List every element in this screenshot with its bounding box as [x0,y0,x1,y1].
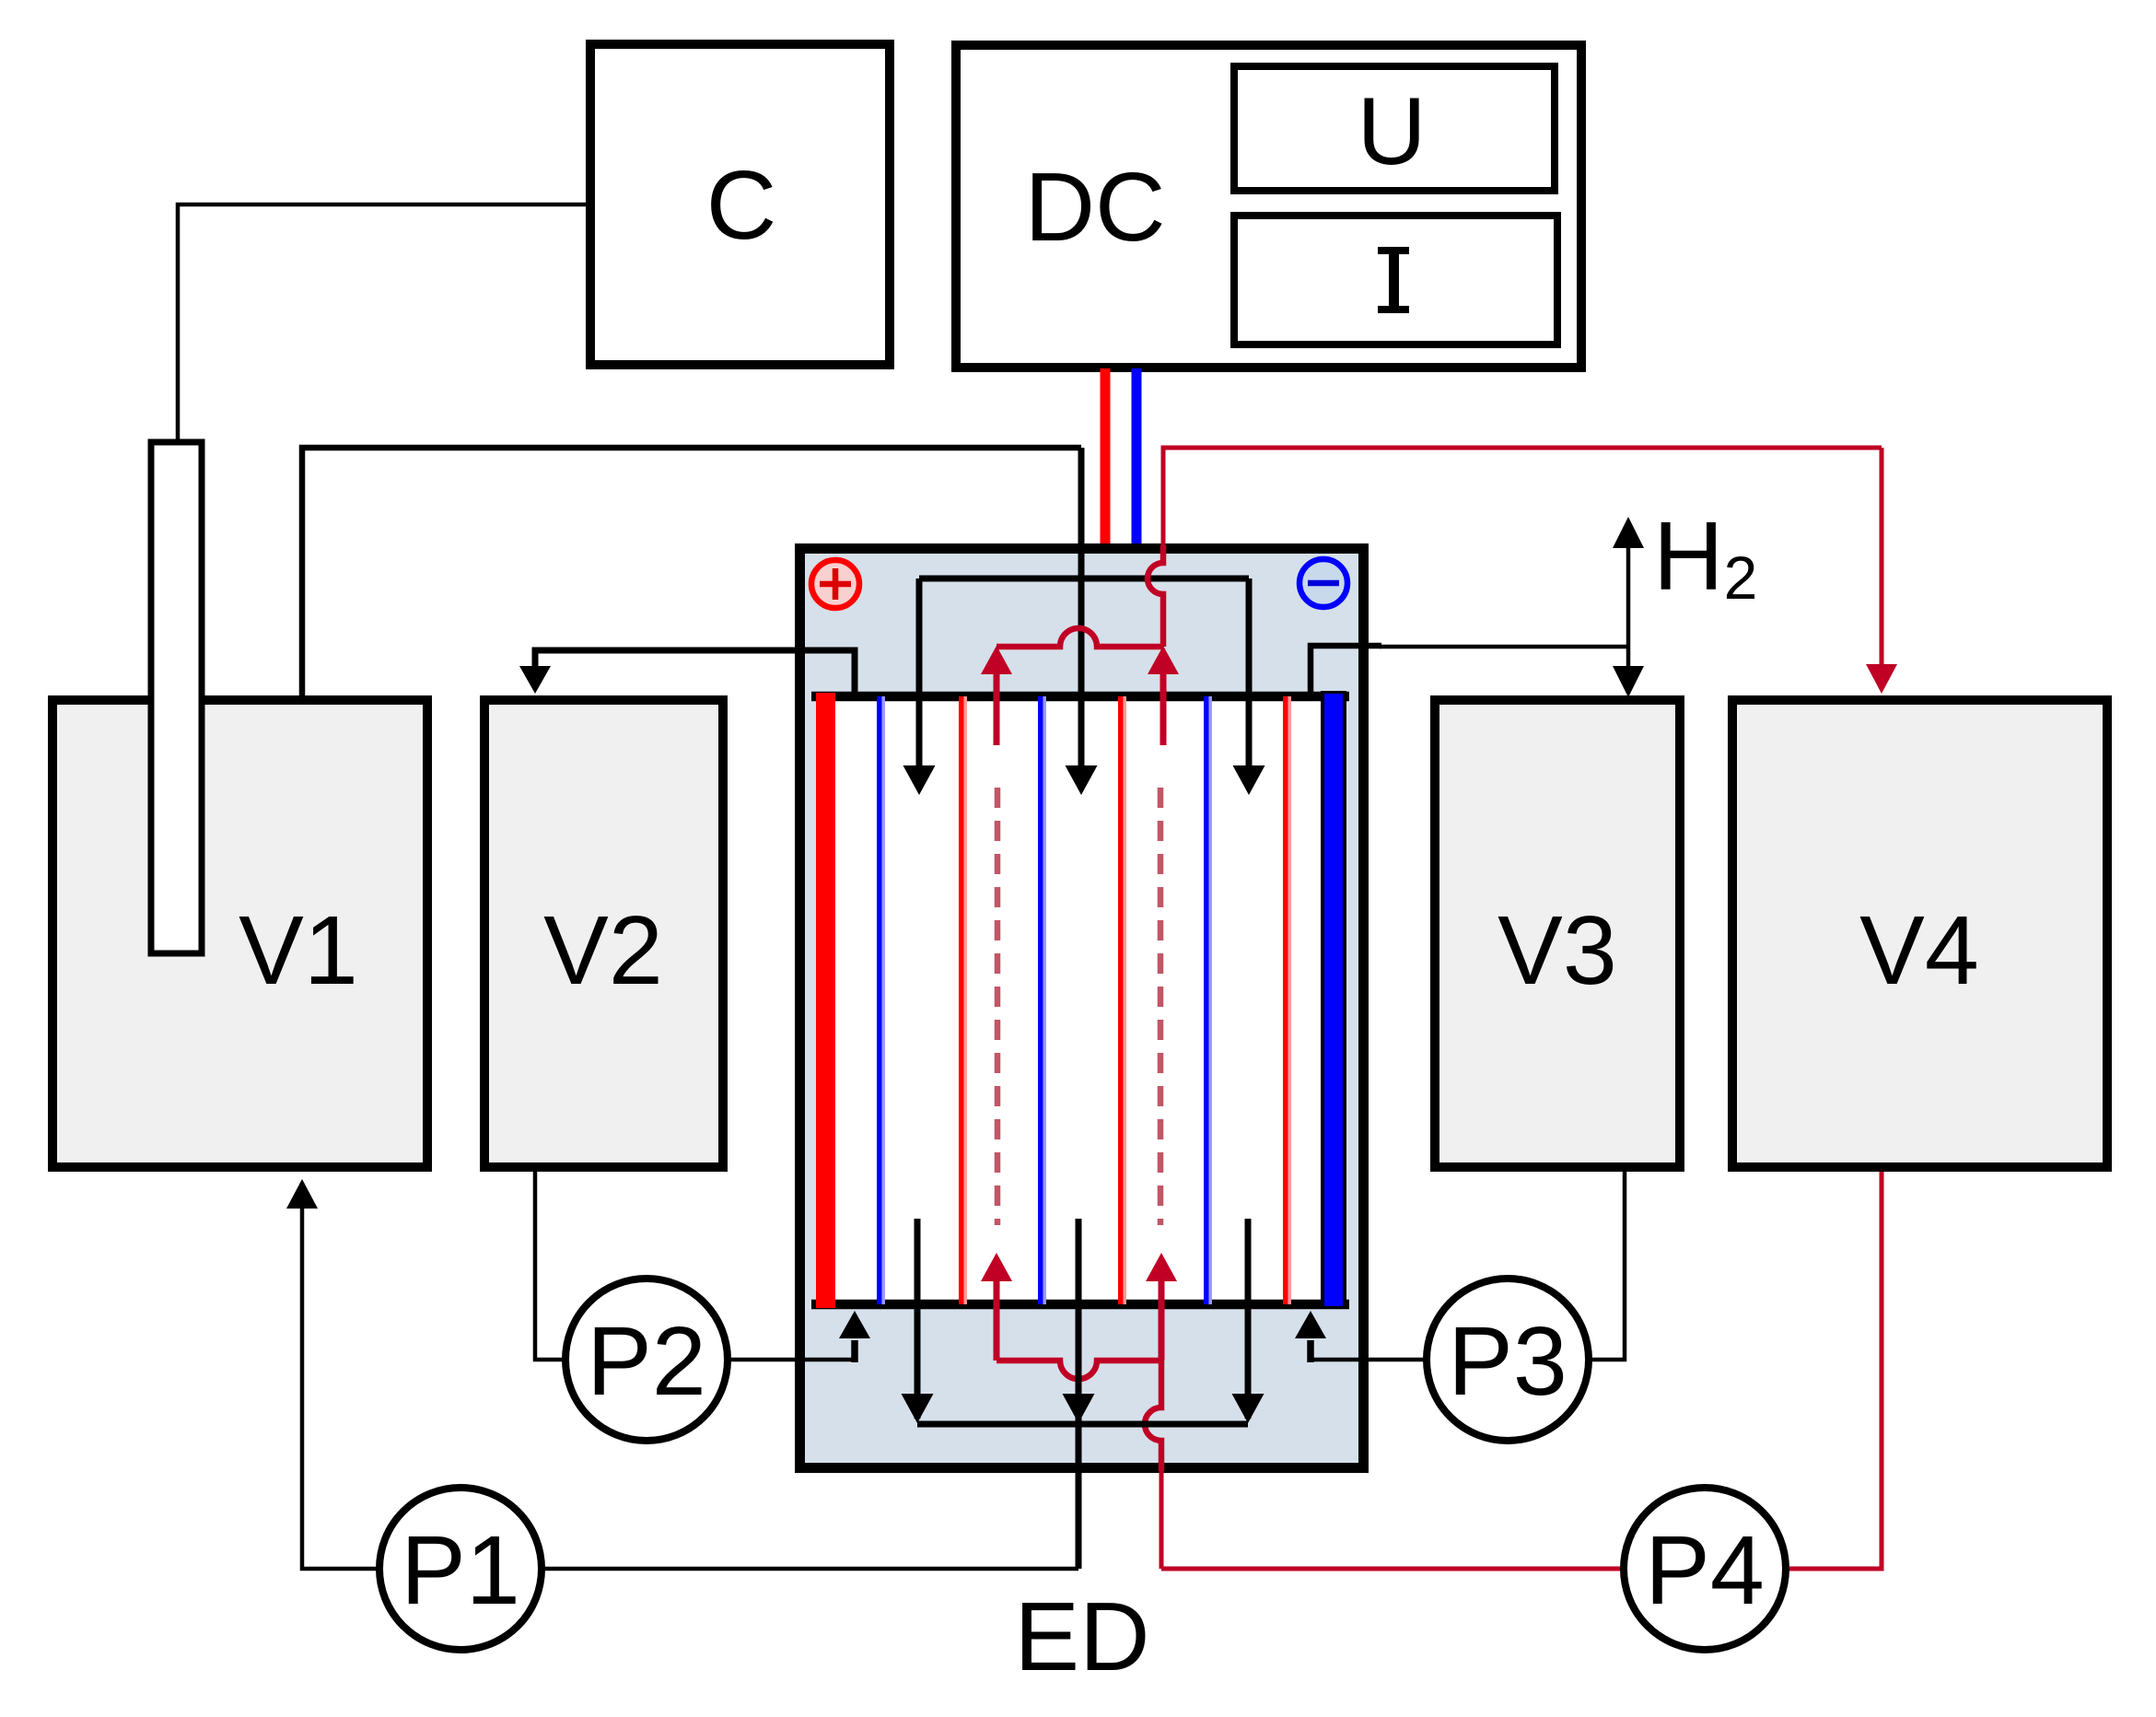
diluate bottom collector channel 2 (center) [1076,1219,1082,1569]
wire P4 to stack [1161,1567,1624,1571]
svg-text:V2: V2 [543,896,663,1005]
anolyte outlet tap to V2 [535,650,855,698]
wire V1 outlet to ED center inlet [302,448,1081,695]
pump P4 [1624,1488,1786,1650]
box C (conductivity meter) [590,44,890,365]
ED stack body [800,549,1364,1468]
anolyte inlet from P2 [731,1358,855,1362]
arrow into V4 [1880,448,1884,665]
svg-text:H2: H2 [1653,502,1757,612]
pump P1 [379,1488,542,1650]
label I (serifed glyph drawn as path) [1378,247,1409,313]
concentrate outlet riser with hop over manifold [1148,545,1163,647]
H2 vent double arrow [1626,545,1631,667]
wire P1 loop: stack bottom to P1 to V1 [532,1567,1078,1571]
catholyte inlet from P3 [1311,1358,1423,1362]
tank V4 [1732,700,2107,1167]
wire V3 to P3 [1589,1172,1625,1360]
svg-text:V3: V3 [1498,896,1617,1005]
arrow into V2 [519,666,551,694]
concentrate bottom up arrow right [1159,1280,1165,1361]
membrane CEM 2 (red) [1118,696,1124,1304]
anode electrode bar (red) [816,693,835,1308]
anode symbol plus [811,560,859,608]
pump P2 [565,1279,728,1441]
pump P3 [1427,1279,1589,1441]
concentrate bottom distribution line with hop down [996,1361,1161,1379]
concentrate return riser from P4 with hop over collector [1145,1361,1161,1471]
concentrate top collect line with hop over center feed [996,628,1163,647]
box DC (power supply) [956,45,1581,368]
diluate top manifold line [919,576,1249,582]
conductivity probe in V1 [151,442,202,953]
svg-text:V4: V4 [1859,896,1979,1005]
catholyte outlet tap to V3 / H2 [1311,646,1381,698]
svg-text:U: U [1357,78,1426,185]
membrane AEM 1 (blue) [877,696,882,1304]
svg-text:P1: P1 [401,1516,520,1625]
membrane AEM 3 (blue) [1204,696,1209,1304]
svg-text:ED: ED [1014,1583,1149,1691]
svg-text:DC: DC [1024,153,1165,262]
diluate feed channel 3 [1246,578,1253,769]
concentrate channel dashed line 2 [1158,788,1164,1225]
box I (ammeter) [1234,216,1557,345]
diluate bottom collector channel 3 [1245,1219,1252,1419]
membrane AEM 2 (blue) [1038,696,1043,1304]
svg-text:C: C [706,151,777,260]
wire DC negative (blue) [1132,368,1142,553]
wire V2 to P2 [535,1172,565,1360]
cathode electrode bar (blue, black outlined) [1321,691,1346,1309]
tank V2 [484,700,723,1167]
wire DC positive (red) [1101,368,1111,553]
concentrate bottom up arrow left [994,1280,1000,1361]
wire conductivity probe to C [178,204,586,439]
svg-text:P2: P2 [587,1307,706,1416]
diluate bottom collector channel 1 [915,1219,921,1419]
svg-text:P3: P3 [1448,1307,1567,1416]
cathode symbol minus [1299,559,1347,607]
concentrate up arrow left [994,674,1000,745]
concentrate channel dashed line 1 [995,788,1001,1225]
cell white region with top and bottom frame lines [816,695,1346,1304]
diluate feed channel 2 (center, from V1) [1078,448,1085,769]
concentrate up arrow right [1160,674,1167,745]
svg-text:P4: P4 [1645,1516,1765,1625]
svg-text:V1: V1 [239,896,358,1005]
diluate bottom collector manifold [917,1421,1248,1428]
tank V3 [1435,700,1680,1167]
box U (voltmeter) [1234,66,1555,191]
diluate feed channel 1 [916,578,923,769]
tank V1 [52,700,427,1167]
membrane CEM 1 (red) [959,696,964,1304]
wire V4 to P4 [1786,1172,1882,1569]
membrane CEM 3 (red) [1283,696,1288,1304]
